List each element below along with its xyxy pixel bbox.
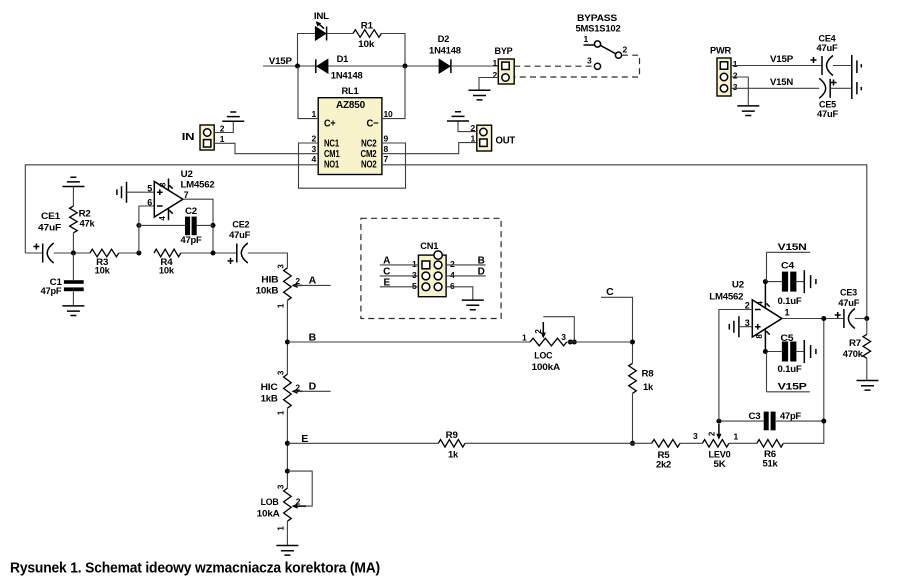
net label V15P bracket: [767, 352, 810, 393]
svg-text:C2: C2: [185, 206, 197, 216]
wire relay NO2 to right bus: [382, 165, 867, 319]
junction dots on V15P row: [295, 64, 408, 69]
svg-text:V15P: V15P: [770, 54, 794, 65]
svg-text:47pF: 47pF: [780, 411, 802, 421]
svg-text:OUT: OUT: [496, 136, 516, 147]
svg-text:2: 2: [311, 133, 316, 143]
op-amp U2 (first half LM4562): [147, 169, 214, 220]
wire V15N net: [731, 77, 819, 88]
svg-text:D1: D1: [337, 54, 349, 64]
svg-text:R9: R9: [446, 430, 458, 440]
svg-text:4: 4: [311, 154, 316, 164]
wire U2a output pin7: [183, 199, 216, 255]
wire net E to CN1 pin5: [380, 278, 419, 289]
resistor R5 2k2: [652, 440, 703, 470]
diode D2 1N4148 (pointing right): [429, 34, 498, 73]
svg-text:Rysunek 1. Schemat ideowy wzma: Rysunek 1. Schemat ideowy wzmacniacza ko…: [10, 560, 380, 577]
resistor R3 10k: [90, 249, 139, 275]
svg-text:4: 4: [755, 301, 764, 306]
svg-text:HIB: HIB: [261, 275, 278, 286]
svg-text:D2: D2: [438, 34, 450, 44]
wire LOB wiper short loop: [287, 471, 312, 506]
resistor R1 10k: [353, 21, 381, 50]
wire R1 to C- rail: [381, 34, 405, 67]
net label V15N bracket: [767, 242, 811, 282]
node C stub: [601, 286, 633, 363]
svg-text:2: 2: [450, 259, 455, 269]
svg-text:C−: C−: [367, 117, 379, 129]
ground at CN1 pin6: [446, 287, 484, 310]
svg-text:LOC: LOC: [534, 351, 552, 362]
svg-text:2: 2: [707, 431, 716, 436]
connector OUT: [470, 123, 515, 151]
wire V15P net: [731, 54, 822, 66]
svg-text:47uF: 47uF: [817, 109, 838, 120]
svg-text:V15P: V15P: [269, 56, 293, 67]
svg-text:NO1: NO1: [324, 159, 339, 171]
svg-text:1: 1: [492, 58, 497, 68]
potentiometer HIB 10kB: [256, 264, 303, 309]
svg-text:1: 1: [583, 34, 588, 44]
svg-text:9: 9: [384, 133, 389, 143]
wire relay pin10 C- to R1/D1 junction: [382, 66, 405, 119]
svg-text:3: 3: [733, 82, 738, 92]
svg-text:1: 1: [522, 333, 527, 343]
resistor R9 1k: [438, 430, 651, 460]
capacitor C1 47pF: [41, 253, 84, 306]
svg-text:100kA: 100kA: [532, 362, 561, 373]
wire INL to R1: [327, 33, 353, 35]
ground at OUT pin2: [447, 112, 477, 132]
svg-text:47uF: 47uF: [838, 298, 859, 309]
op-amp U2 (second half LM4562): [709, 280, 789, 352]
svg-text:C3: C3: [749, 411, 761, 421]
ground at BYP pin2: [469, 78, 499, 100]
svg-text:R6: R6: [764, 449, 776, 459]
wire U2b output: [782, 316, 844, 321]
svg-text:CE1: CE1: [41, 211, 61, 222]
svg-text:10kA: 10kA: [257, 509, 280, 520]
svg-text:V15P: V15P: [778, 381, 808, 392]
svg-text:NO2: NO2: [361, 159, 377, 171]
wire net B from CN1 pin2: [446, 256, 486, 267]
svg-text:U2: U2: [732, 280, 744, 291]
svg-text:2: 2: [733, 71, 738, 81]
svg-text:LOB: LOB: [261, 497, 279, 508]
svg-text:47uF: 47uF: [229, 230, 250, 241]
connector CN1: [412, 241, 455, 297]
node junction CE1/R2/R3/C1: [71, 251, 76, 256]
svg-text:C+: C+: [324, 117, 336, 129]
svg-text:1: 1: [733, 59, 738, 69]
svg-text:1k: 1k: [643, 382, 654, 392]
svg-text:5MS1S102: 5MS1S102: [576, 24, 621, 34]
capacitor CE2 47uF: [228, 219, 288, 267]
resistor R6 51k: [757, 319, 824, 469]
svg-text:2: 2: [745, 300, 750, 310]
dashed option box: [361, 218, 501, 318]
diode D1 1N4148 (pointing left): [298, 54, 440, 81]
svg-text:47pF: 47pF: [41, 286, 62, 296]
svg-text:V15N: V15N: [778, 242, 807, 253]
svg-text:470k: 470k: [843, 349, 864, 359]
capacitor CE4 47uF: [811, 34, 852, 76]
svg-text:HIC: HIC: [261, 382, 278, 393]
svg-text:3: 3: [412, 270, 417, 280]
svg-text:BYP: BYP: [495, 46, 514, 57]
svg-text:3: 3: [561, 332, 566, 342]
wire IN pin1 to relay CM1: [214, 143, 318, 153]
svg-text:A: A: [309, 275, 317, 287]
resistor R8 1k: [629, 363, 655, 446]
wire OUT pin1 to relay CM2: [382, 143, 477, 154]
svg-text:1: 1: [412, 259, 417, 269]
svg-text:3: 3: [693, 431, 698, 441]
ground above R2: [62, 177, 84, 206]
node V15P (input supply to relay coil): [263, 56, 298, 67]
svg-text:1: 1: [784, 308, 789, 318]
svg-text:6: 6: [147, 197, 152, 207]
svg-text:LM4562: LM4562: [709, 292, 743, 303]
svg-text:47uF: 47uF: [817, 43, 838, 54]
svg-text:1: 1: [470, 134, 475, 144]
svg-text:LM4562: LM4562: [181, 180, 215, 191]
svg-text:0.1uF: 0.1uF: [778, 296, 802, 307]
svg-text:IN: IN: [182, 132, 195, 143]
svg-text:CE2: CE2: [232, 219, 249, 230]
potentiometer HIC 1kB: [261, 370, 303, 415]
resistor R7 470k: [843, 319, 871, 381]
connector IN: [182, 124, 225, 151]
wire net D from CN1 pin4: [446, 267, 486, 278]
svg-text:R7: R7: [849, 338, 861, 348]
svg-text:1N4148: 1N4148: [429, 46, 461, 56]
ground at PWR pin2: [731, 77, 759, 116]
wire HIC to LOB with node E: [285, 408, 290, 488]
svg-text:R5: R5: [658, 450, 670, 460]
node junction R3/R4/U2a pin6: [136, 206, 154, 256]
svg-text:1: 1: [734, 432, 739, 442]
resistor R2 47k: [70, 206, 96, 253]
svg-text:10kB: 10kB: [256, 286, 279, 297]
wire U2b pin2 to LEVO wiper/C3: [719, 310, 752, 422]
capacitor C2 47pF (feedback): [139, 206, 213, 245]
connector BYP: [492, 46, 514, 84]
wire net A to CN1 pin1: [380, 256, 419, 267]
svg-text:1N4148: 1N4148: [331, 71, 363, 81]
svg-text:PWR: PWR: [710, 46, 731, 57]
wire node D from HIC wiper: [295, 381, 331, 393]
svg-text:R8: R8: [642, 369, 654, 379]
capacitor C5 0.1uF: [763, 333, 816, 375]
svg-text:10: 10: [384, 109, 394, 119]
capacitor CE1 47uF: [25, 211, 90, 263]
capacitor C4 0.1uF: [763, 261, 816, 307]
wire net C to CN1 pin3: [380, 267, 419, 278]
svg-text:1: 1: [311, 109, 316, 119]
svg-text:2: 2: [492, 70, 497, 80]
svg-text:C: C: [606, 286, 614, 298]
switch BYPASS 5MS1S102: [514, 13, 639, 77]
svg-text:7: 7: [384, 154, 389, 164]
ground at U2a pin5: [117, 182, 154, 203]
ground at IN pin2: [214, 112, 244, 133]
ground below LOB: [276, 521, 298, 555]
caption: [10, 560, 380, 577]
resistor R4 10k: [154, 249, 237, 275]
svg-text:8: 8: [755, 334, 764, 339]
wire top rail C+ side: [298, 34, 315, 67]
ground below R7: [857, 381, 879, 391]
svg-text:1kB: 1kB: [261, 394, 278, 405]
wire LOC to R8 junction: [567, 340, 635, 345]
svg-text:47pF: 47pF: [181, 235, 203, 245]
wire node B to LOC: [287, 332, 530, 344]
svg-text:2: 2: [623, 45, 628, 55]
svg-text:4: 4: [450, 270, 455, 280]
wire relay pin1 C+ to V15P junction: [298, 66, 318, 119]
chassis ground right of CE4/CE5: [852, 55, 862, 99]
svg-text:0.1uF: 0.1uF: [778, 364, 802, 375]
svg-text:1: 1: [220, 134, 225, 144]
svg-text:8: 8: [384, 144, 389, 154]
wire HIB to HIC with node B: [285, 300, 290, 374]
svg-text:10k: 10k: [95, 266, 111, 276]
capacitor CE5 47uF: [817, 78, 852, 120]
svg-text:CE3: CE3: [840, 288, 857, 299]
svg-text:51k: 51k: [763, 458, 779, 468]
svg-text:7: 7: [184, 190, 189, 200]
svg-text:10k: 10k: [358, 39, 375, 49]
wire node E to R9: [287, 433, 438, 445]
svg-text:AZ850: AZ850: [336, 99, 365, 111]
potentiometer LOB 10kA: [257, 484, 306, 531]
capacitor C3 47pF: [716, 411, 826, 431]
wire NC1-NC2 loop below relay: [299, 143, 406, 188]
svg-text:5: 5: [412, 281, 417, 291]
svg-text:3: 3: [311, 144, 316, 154]
capacitor CE3 47uF: [835, 288, 870, 329]
svg-text:5K: 5K: [714, 459, 726, 470]
potentiometer LEVO 5K: [693, 424, 757, 470]
svg-text:3: 3: [587, 56, 592, 66]
svg-text:CN1: CN1: [420, 241, 439, 252]
ground at U2b pin3: [729, 316, 752, 337]
connector PWR: [710, 46, 738, 97]
svg-text:D: D: [309, 381, 317, 393]
svg-text:47k: 47k: [80, 219, 96, 229]
svg-text:INL: INL: [314, 11, 329, 22]
relay RL1 AZ850: [311, 86, 393, 175]
svg-text:1k: 1k: [448, 450, 459, 460]
svg-text:R1: R1: [361, 21, 373, 31]
wire relay NO1 to left bus: [25, 165, 318, 253]
svg-text:4: 4: [158, 216, 167, 221]
wire node A from HIB wiper: [295, 275, 331, 287]
svg-text:C4: C4: [781, 261, 795, 272]
LED INL: [314, 11, 329, 41]
ground below C1: [62, 306, 84, 316]
svg-text:V15N: V15N: [770, 77, 793, 88]
svg-text:2k2: 2k2: [656, 459, 671, 469]
svg-text:RL1: RL1: [342, 86, 360, 97]
svg-text:6: 6: [450, 281, 455, 291]
svg-text:BYPASS: BYPASS: [577, 13, 617, 23]
svg-text:R2: R2: [79, 209, 91, 219]
svg-text:47uF: 47uF: [38, 223, 61, 234]
svg-text:10k: 10k: [159, 266, 175, 276]
potentiometer LOC 100kA: [522, 317, 577, 373]
